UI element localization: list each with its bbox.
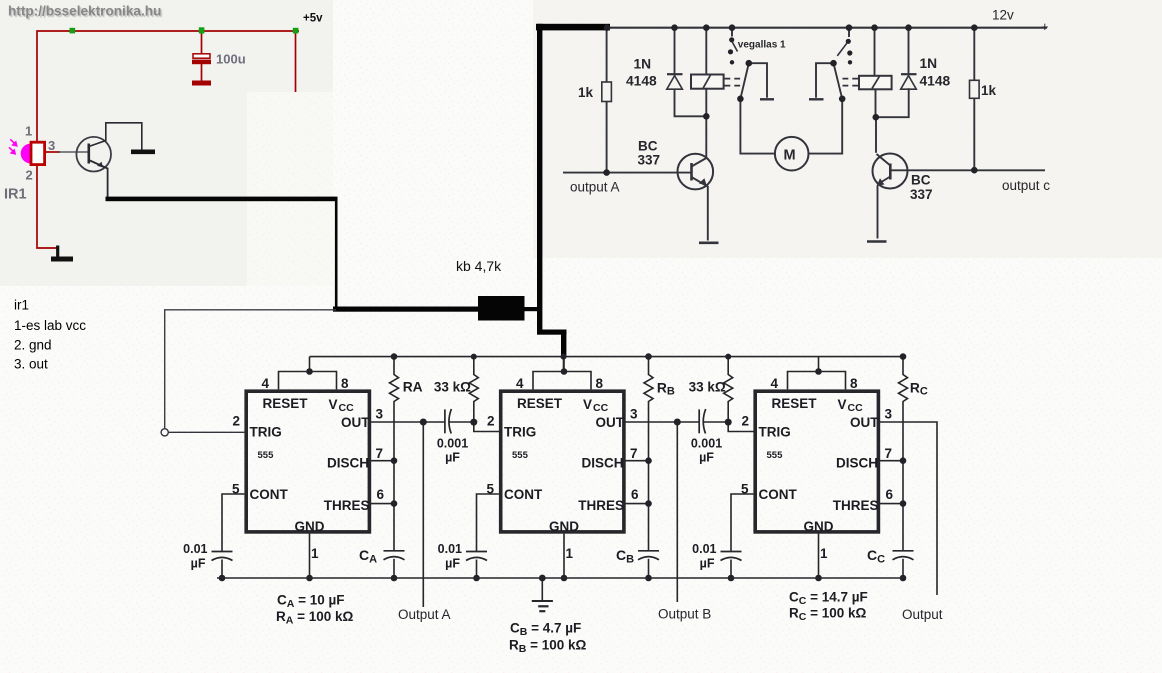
- svg-text:µF: µF: [699, 451, 714, 465]
- svg-text:4148: 4148: [920, 74, 951, 89]
- svg-text:33 kΩ: 33 kΩ: [689, 380, 726, 395]
- svg-text:3. out: 3. out: [14, 357, 48, 372]
- svg-text:output c: output c: [1002, 178, 1050, 193]
- svg-text:+5v: +5v: [303, 13, 323, 25]
- svg-text:3: 3: [48, 138, 55, 153]
- svg-text:µF: µF: [445, 451, 460, 465]
- svg-text:vegallas 1: vegallas 1: [738, 40, 786, 51]
- svg-text:100u: 100u: [216, 52, 246, 67]
- svg-text:337: 337: [910, 187, 933, 202]
- svg-text:BC: BC: [638, 139, 658, 154]
- svg-text:33 kΩ: 33 kΩ: [434, 380, 471, 395]
- svg-text:Output: Output: [902, 607, 943, 622]
- svg-text:output A: output A: [570, 180, 620, 195]
- svg-text:0.001: 0.001: [691, 437, 722, 451]
- svg-text:http://bsselektronika.hu: http://bsselektronika.hu: [8, 3, 161, 18]
- svg-text:Output B: Output B: [658, 607, 711, 622]
- svg-text:1: 1: [25, 124, 32, 139]
- svg-text:1-es lab vcc: 1-es lab vcc: [14, 318, 86, 333]
- svg-text:1k: 1k: [578, 85, 594, 100]
- svg-text:IR1: IR1: [4, 187, 27, 203]
- svg-text:kb 4,7k: kb 4,7k: [456, 258, 502, 274]
- svg-text:12v: 12v: [992, 8, 1014, 23]
- svg-text:337: 337: [638, 153, 661, 168]
- svg-text:Output A: Output A: [398, 607, 451, 622]
- svg-text:1k: 1k: [981, 83, 997, 98]
- svg-text:4148: 4148: [626, 74, 657, 89]
- svg-text:BC: BC: [911, 173, 931, 188]
- svg-text:ir1: ir1: [14, 298, 29, 313]
- svg-text:2: 2: [26, 168, 33, 183]
- svg-text:RA: RA: [403, 380, 423, 395]
- svg-text:1N: 1N: [634, 57, 652, 72]
- svg-text:1N: 1N: [920, 56, 938, 71]
- svg-text:0.001: 0.001: [437, 437, 468, 451]
- svg-text:+: +: [1041, 19, 1049, 34]
- svg-text:2. gnd: 2. gnd: [14, 338, 52, 353]
- svg-text:M: M: [783, 148, 795, 164]
